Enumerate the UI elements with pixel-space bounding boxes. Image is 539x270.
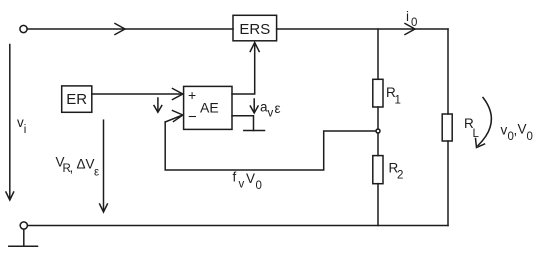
wire: RL bottom lead down to bottom rail xyxy=(447,141,449,226)
label RL xyxy=(464,116,480,140)
input terminal (top-left) xyxy=(20,25,27,32)
wire: input terminal to ERS, with current arrow xyxy=(27,24,233,35)
voltage arrow v0 (curved, across RL) xyxy=(476,98,492,148)
label R2 xyxy=(389,161,404,182)
svg-text:i: i xyxy=(24,124,27,136)
svg-text:v: v xyxy=(268,108,274,120)
label R1 xyxy=(386,85,401,107)
label VR, delta-V-epsilon xyxy=(56,155,100,179)
wire: node to R2 xyxy=(377,133,379,156)
resistor R1 xyxy=(373,79,383,107)
pin + (non-inverting input) xyxy=(188,87,196,103)
label vi xyxy=(17,115,26,136)
block ER xyxy=(62,86,92,112)
voltage arrow (error) between inputs xyxy=(154,98,162,112)
wire: bottom rail xyxy=(28,225,449,227)
svg-text:−: − xyxy=(188,109,197,126)
svg-text:ε: ε xyxy=(94,167,99,179)
voltage arrow VR / delta-V xyxy=(100,120,108,212)
svg-text:0: 0 xyxy=(527,131,533,143)
svg-text:f: f xyxy=(233,170,237,185)
wire: AE output to ERS (controlled drive), arrow up xyxy=(232,43,259,95)
block ERS xyxy=(233,15,277,41)
input terminal (bottom-left) xyxy=(20,222,27,229)
wire: ERS output to right branch, with i0 arrow xyxy=(277,24,448,35)
svg-text:v: v xyxy=(239,179,245,191)
svg-text:V: V xyxy=(246,171,255,186)
svg-text:0: 0 xyxy=(411,17,417,29)
wire: ER output to AE non-inverting input xyxy=(92,89,183,100)
svg-text:1: 1 xyxy=(395,95,401,107)
svg-text:v: v xyxy=(501,123,508,138)
label av epsilon xyxy=(260,100,281,120)
wire: AE lower output to ground xyxy=(232,116,254,131)
svg-text:0: 0 xyxy=(256,180,262,192)
svg-text:AE: AE xyxy=(200,100,219,116)
wire: top of R1/R2 branch xyxy=(377,29,379,79)
svg-text:ERS: ERS xyxy=(239,21,270,38)
wire: R2 to bottom rail xyxy=(377,184,379,226)
svg-text:i: i xyxy=(406,9,409,24)
resistor R2 xyxy=(373,156,383,184)
resistor RL xyxy=(442,114,452,141)
label i0 xyxy=(406,9,417,29)
svg-text:+: + xyxy=(188,87,196,103)
svg-text:V: V xyxy=(518,122,527,137)
node (R1-R2 junction) xyxy=(376,129,380,133)
ground (AE output reference) xyxy=(244,130,265,132)
svg-text:ER: ER xyxy=(66,91,87,108)
voltage arrow av-epsilon xyxy=(250,99,258,113)
label v0,V0 xyxy=(501,122,533,144)
voltage arrow vi xyxy=(6,45,14,201)
label AE xyxy=(200,100,219,116)
ground (bottom-left) xyxy=(9,229,38,246)
wire: right vertical (top), RL top lead xyxy=(447,29,449,114)
wire: feedback path from node to AE inverting input xyxy=(165,111,376,171)
svg-text:ΔV: ΔV xyxy=(77,157,95,172)
wire: R1 to node xyxy=(377,107,379,129)
pin - (inverting input) xyxy=(188,109,197,126)
svg-text:2: 2 xyxy=(397,170,403,182)
block AE xyxy=(184,86,232,129)
label fvV0 (feedback voltage) xyxy=(233,170,262,193)
svg-text:ε: ε xyxy=(275,101,281,116)
svg-text:,: , xyxy=(70,160,74,175)
